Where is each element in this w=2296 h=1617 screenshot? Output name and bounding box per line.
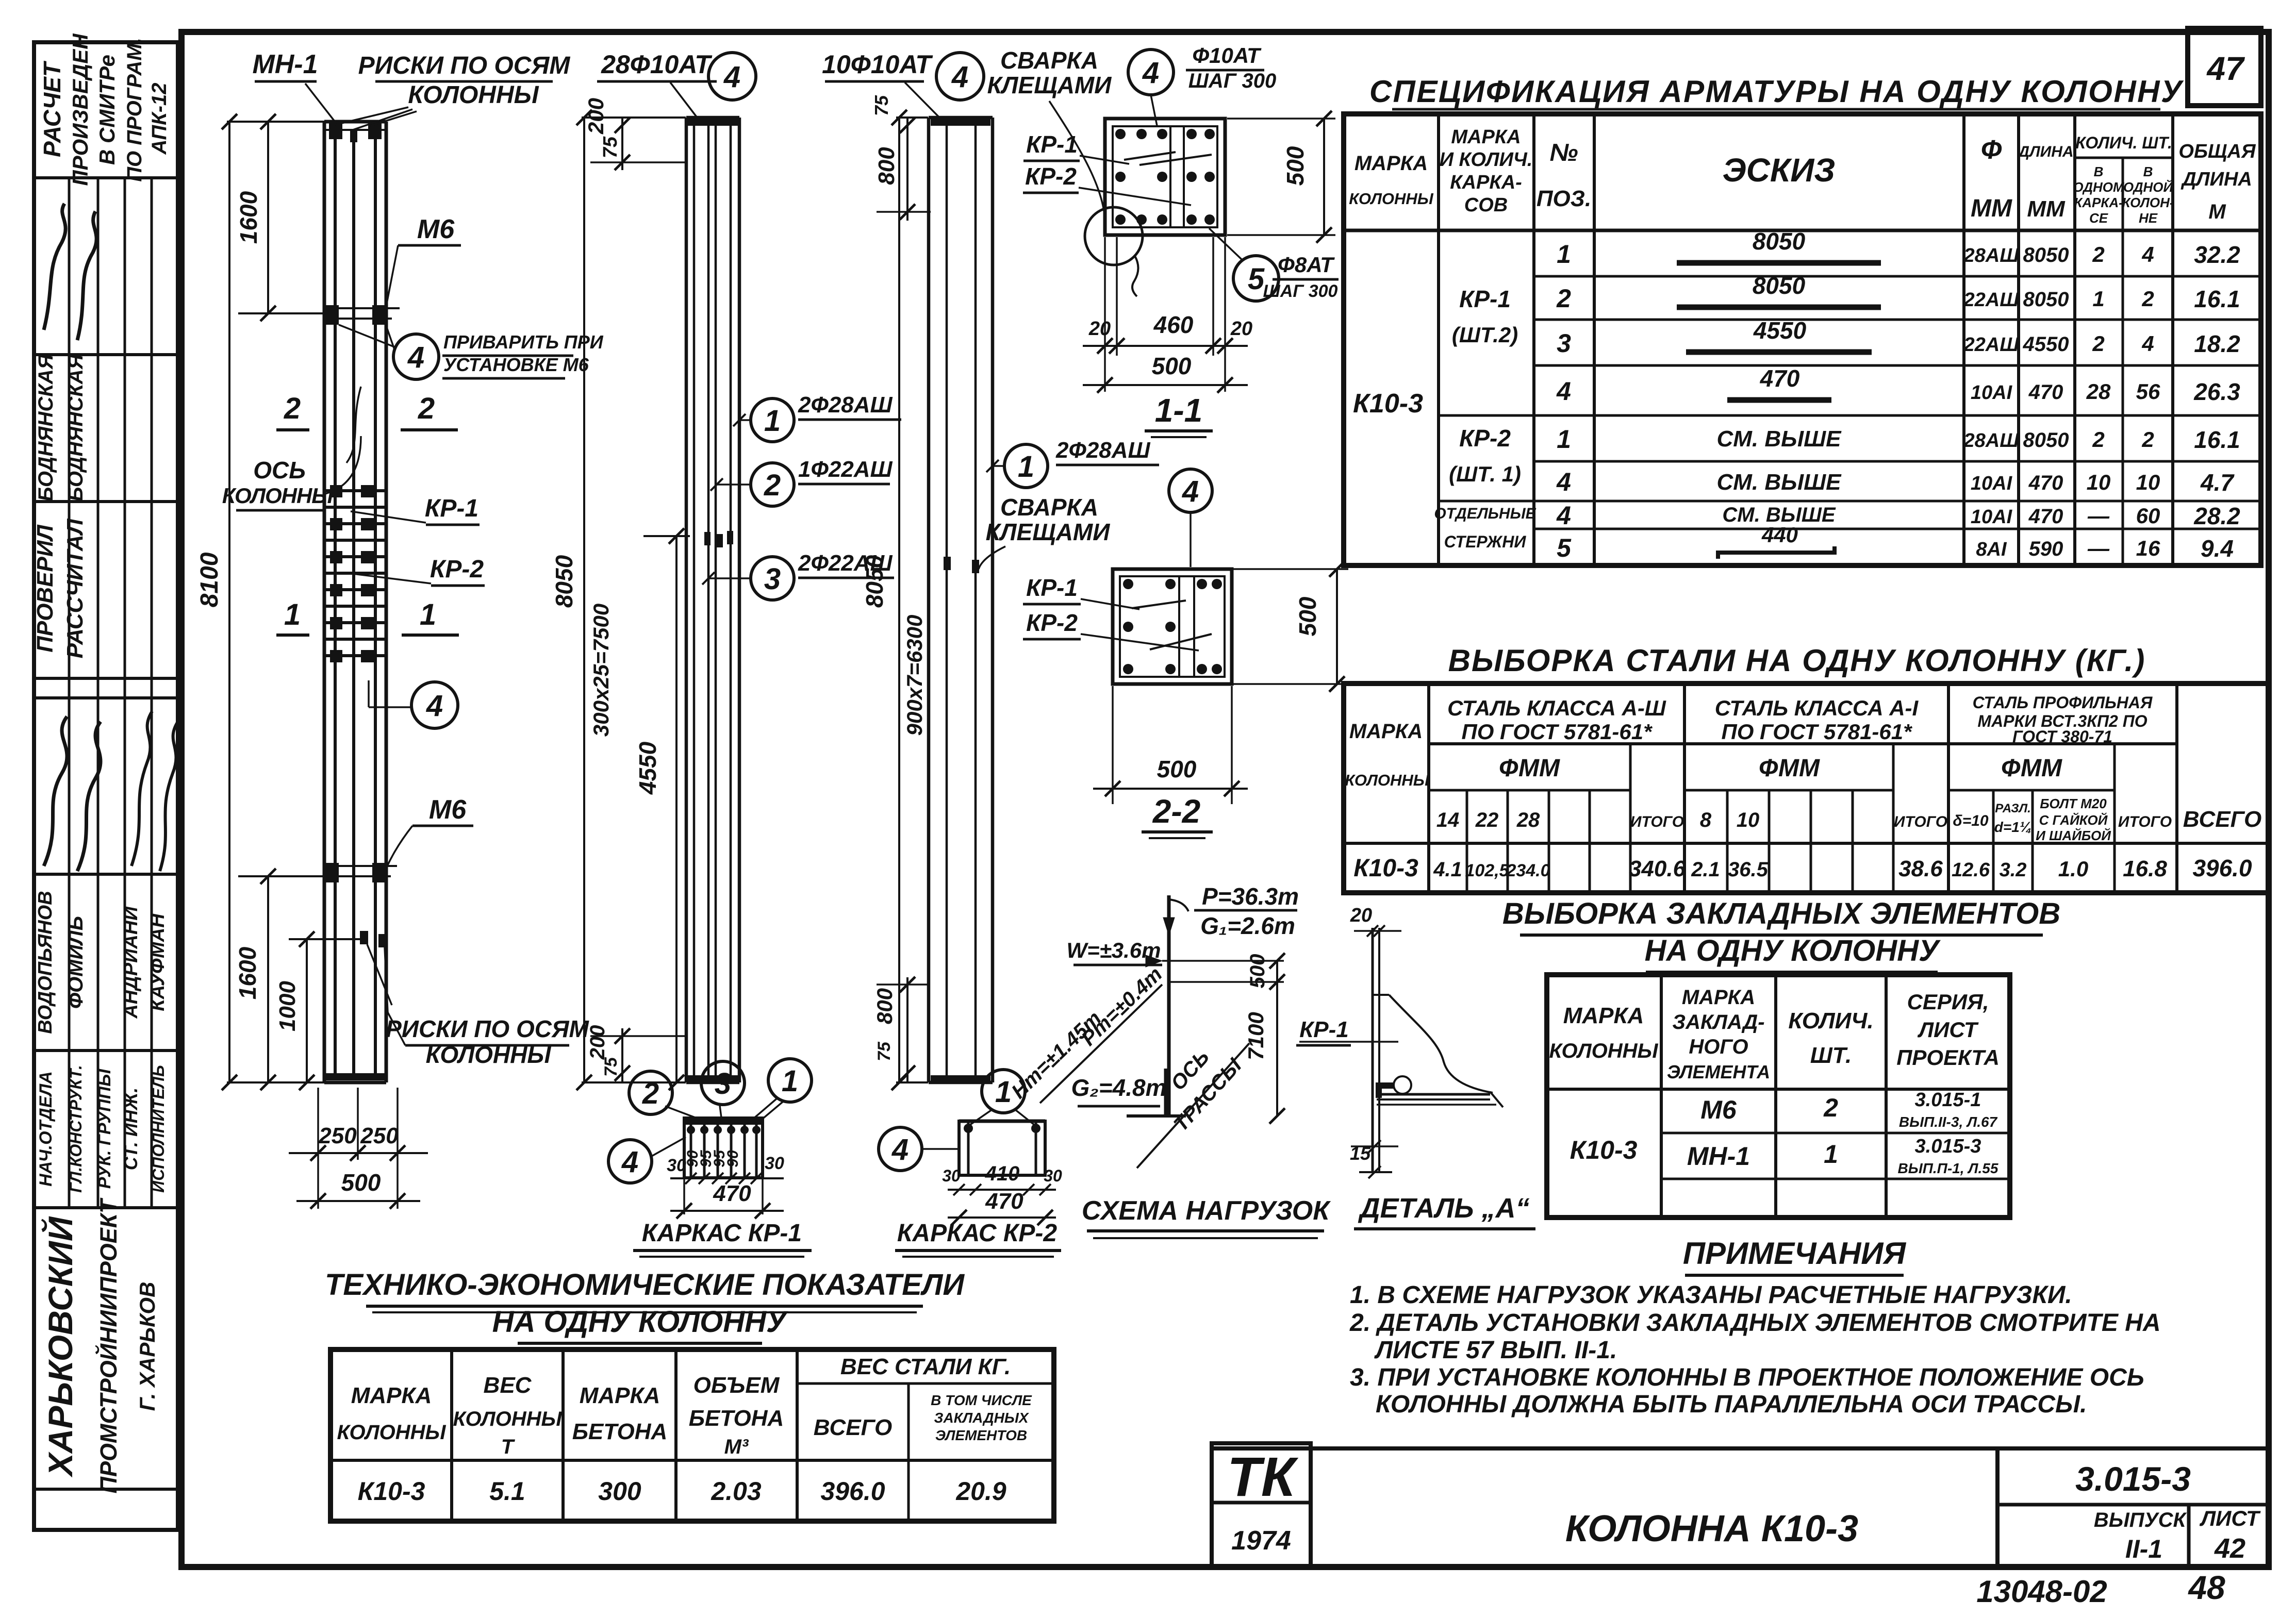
svg-text:440: 440 <box>1761 523 1798 547</box>
circle 4 karkas kr2 <box>879 1127 922 1171</box>
svg-text:МАРКА: МАРКА <box>1563 1003 1644 1028</box>
svg-text:РАССЧИТАЛ: РАССЧИТАЛ <box>62 519 88 659</box>
svg-text:КОЛОННЫ: КОЛОННЫ <box>337 1421 446 1444</box>
svg-text:22: 22 <box>1475 809 1499 831</box>
svg-text:НЕ: НЕ <box>2139 210 2158 226</box>
column 2 bottom dims 200/75 <box>621 1028 623 1082</box>
svg-text:102,5: 102,5 <box>1465 861 1509 880</box>
svg-text:30: 30 <box>765 1154 784 1173</box>
column 3 top plate <box>929 116 993 120</box>
os trassy diagonal <box>1137 1043 1249 1168</box>
detail A anchor angle <box>1376 1082 1394 1089</box>
svg-text:ШАГ 300: ШАГ 300 <box>1188 70 1276 92</box>
svg-text:ВСЕГО: ВСЕГО <box>814 1415 892 1440</box>
svg-text:ФММ: ФММ <box>1499 755 1560 782</box>
svg-text:1.0: 1.0 <box>2058 857 2088 881</box>
svg-text:250: 250 <box>318 1123 357 1148</box>
svg-text:18.2: 18.2 <box>2194 330 2240 357</box>
svg-text:—: — <box>2087 536 2110 560</box>
svg-text:РАЗЛ.: РАЗЛ. <box>1995 802 2031 815</box>
svg-text:КОЛОННЫ: КОЛОННЫ <box>1549 1040 1658 1062</box>
svg-text:КОЛОННА К10-3: КОЛОННА К10-3 <box>1565 1508 1858 1549</box>
svg-text:4: 4 <box>2141 242 2154 266</box>
karkas kr1 dim 470 <box>683 1178 685 1214</box>
svg-text:СТ. ИНЖ.: СТ. ИНЖ. <box>120 1088 141 1171</box>
svg-text:ММ: ММ <box>2027 196 2066 222</box>
svg-text:ПО ГОСТ 5781-61*: ПО ГОСТ 5781-61* <box>1722 720 1913 744</box>
svg-text:1600: 1600 <box>234 946 261 999</box>
svg-text:МАРКА: МАРКА <box>1355 152 1428 175</box>
svg-text:К10-3: К10-3 <box>1353 389 1423 419</box>
svg-text:20: 20 <box>1230 318 1252 340</box>
svg-text:8050: 8050 <box>1753 272 1806 299</box>
svg-text:ВЫБОРКА СТАЛИ НА ОДНУ КОЛО: ВЫБОРКА СТАЛИ НА ОДНУ КОЛОННУ (КГ.) <box>1448 643 2146 678</box>
svg-text:КР-1: КР-1 <box>1026 574 1078 601</box>
svg-text:10АI: 10АI <box>1971 506 2013 528</box>
svg-text:АПК-12: АПК-12 <box>148 82 171 155</box>
svg-text:10: 10 <box>1737 809 1760 831</box>
svg-text:590: 590 <box>2029 538 2063 560</box>
svg-text:Т: Т <box>501 1436 516 1458</box>
svg-text:К10-3: К10-3 <box>358 1477 425 1506</box>
svg-text:СХЕМА НАГРУЗОК: СХЕМА НАГРУЗОК <box>1082 1196 1331 1226</box>
svg-text:ВЕС СТАЛИ КГ.: ВЕС СТАЛИ КГ. <box>840 1354 1011 1379</box>
svg-text:ИТОГО: ИТОГО <box>1630 813 1684 830</box>
svg-text:1974: 1974 <box>1231 1526 1291 1556</box>
svg-text:БОДНЯНСКАЯ: БОДНЯНСКАЯ <box>35 354 57 502</box>
svg-text:СЕРИЯ,: СЕРИЯ, <box>1907 990 1989 1014</box>
svg-text:ВЫП.П-1, Л.55: ВЫП.П-1, Л.55 <box>1898 1160 1998 1176</box>
column 1 elevation: dimension 8100 <box>228 122 230 1082</box>
svg-text:396.0: 396.0 <box>2192 855 2252 881</box>
svg-text:ОДНОЙ: ОДНОЙ <box>2123 179 2174 195</box>
svg-text:16.1: 16.1 <box>2194 426 2240 453</box>
svg-text:3.015-3: 3.015-3 <box>1915 1136 1981 1157</box>
svg-text:410: 410 <box>985 1162 1020 1185</box>
svg-text:(ШТ.2): (ШТ.2) <box>1452 323 1518 347</box>
svg-text:КР-1: КР-1 <box>425 495 478 522</box>
svg-text:НАЧ.ОТДЕЛА: НАЧ.ОТДЕЛА <box>36 1071 56 1187</box>
svg-text:4: 4 <box>621 1145 638 1179</box>
column 1 bottom dims 250+250 <box>289 1152 428 1154</box>
svg-text:3: 3 <box>715 1067 731 1101</box>
detail A circle on section <box>1085 207 1143 265</box>
svg-text:234.0: 234.0 <box>1506 861 1550 880</box>
svg-text:1. В СХЕМЕ НАГРУЗОК УКАЗАНЫ: 1. В СХЕМЕ НАГРУЗОК УКАЗАНЫ РАСЧЕТНЫЕ НА… <box>1350 1281 2072 1309</box>
svg-text:3.015-3: 3.015-3 <box>2075 1460 2191 1498</box>
svg-text:4: 4 <box>1142 56 1159 90</box>
svg-text:1: 1 <box>995 1075 1012 1109</box>
svg-text:ТЕХНИКО-ЭКОНОМИЧЕСКИЕ ПОКАЗАТ: ТЕХНИКО-ЭКОНОМИЧЕСКИЕ ПОКАЗАТЕЛИ <box>325 1268 965 1302</box>
column 1: dimension 1600 top <box>267 122 269 313</box>
column 3 bottom dims 800/75 <box>906 977 909 1082</box>
svg-text:КОЛОННЫ ДОЛЖНА БЫТЬ ПАРАЛЛЕ: КОЛОННЫ ДОЛЖНА БЫТЬ ПАРАЛЛЕЛЬНА ОСИ ТРАС… <box>1376 1391 2087 1418</box>
svg-text:75: 75 <box>871 95 892 116</box>
svg-text:2: 2 <box>1823 1093 1838 1122</box>
svg-text:ДЕТАЛЬ „А“: ДЕТАЛЬ „А“ <box>1358 1193 1530 1224</box>
svg-text:СОВ: СОВ <box>1464 194 1508 216</box>
svg-text:470: 470 <box>1760 365 1800 392</box>
svg-text:ШТ.: ШТ. <box>1810 1043 1852 1068</box>
svg-text:ФММ: ФММ <box>1759 755 1820 782</box>
column 1 dimension 1600 bottom <box>267 876 269 1082</box>
svg-text:КОЛИЧ.: КОЛИЧ. <box>1788 1008 1873 1033</box>
svg-text:47: 47 <box>2206 50 2245 87</box>
section 1-1 bottom dims 20/460/20 <box>1104 237 1106 392</box>
svg-text:2Ф28АШ: 2Ф28АШ <box>1055 438 1151 463</box>
svg-text:3. ПРИ УСТАНОВКЕ КОЛОННЫ В: 3. ПРИ УСТАНОВКЕ КОЛОННЫ В ПРОЕКТНОЕ ПОЛ… <box>1350 1364 2144 1391</box>
svg-text:УСТАНОВКЕ М6: УСТАНОВКЕ М6 <box>443 354 589 375</box>
svg-text:1000: 1000 <box>275 981 300 1031</box>
svg-text:500: 500 <box>341 1169 381 1196</box>
svg-text:КОЛОН-: КОЛОН- <box>2122 195 2174 210</box>
column 2 main dim 8050 <box>583 118 585 1082</box>
svg-text:ВЫПУСК: ВЫПУСК <box>2094 1509 2187 1531</box>
svg-text:СМ. ВЫШЕ: СМ. ВЫШЕ <box>1716 470 1842 495</box>
svg-text:ОТДЕЛЬНЫЕ: ОТДЕЛЬНЫЕ <box>1434 505 1536 522</box>
svg-text:22АШ: 22АШ <box>1963 334 2020 356</box>
svg-text:КР-2: КР-2 <box>1025 163 1077 190</box>
svg-text:КЛЕЩАМИ: КЛЕЩАМИ <box>986 519 1111 545</box>
svg-text:4: 4 <box>1556 501 1571 530</box>
svg-text:ПРОИЗВЕДЕН: ПРОИЗВЕДЕН <box>68 33 92 186</box>
svg-text:КОЛОННЫ: КОЛОННЫ <box>408 81 539 109</box>
svg-text:4550: 4550 <box>634 741 661 795</box>
svg-text:1600: 1600 <box>235 191 262 244</box>
svg-text:СПЕЦИФИКАЦИЯ АРМАТУРЫ НА ОД: СПЕЦИФИКАЦИЯ АРМАТУРЫ НА ОДНУ КОЛОННУ <box>1369 74 2184 109</box>
spec table grid <box>1344 114 2261 565</box>
column 3 main dim 8050 <box>898 118 900 1082</box>
circle 5 + F8AT <box>1233 256 1279 301</box>
column 1 stirrup band <box>325 489 386 492</box>
title block <box>1212 1446 2269 1451</box>
svg-text:(ШТ. 1): (ШТ. 1) <box>1449 462 1521 486</box>
svg-text:ВСЕГО: ВСЕГО <box>2183 807 2261 832</box>
svg-text:2: 2 <box>2092 427 2104 452</box>
svg-text:ПО ГОСТ 5781-61*: ПО ГОСТ 5781-61* <box>1462 720 1653 744</box>
svg-text:ЗАКЛАДНЫХ: ЗАКЛАДНЫХ <box>934 1410 1029 1426</box>
callout circle 1 column 3 <box>1004 444 1048 488</box>
svg-text:РИСКИ ПО ОСЯМ: РИСКИ ПО ОСЯМ <box>358 52 571 79</box>
karkas Kr-1 sketch <box>684 1118 763 1178</box>
svg-text:800: 800 <box>872 988 897 1024</box>
svg-text:28.2: 28.2 <box>2193 503 2240 529</box>
svg-text:ОСЬ: ОСЬ <box>253 457 306 484</box>
svg-text:АНДРИАНИ: АНДРИАНИ <box>120 906 142 1019</box>
svg-text:75: 75 <box>874 1041 894 1061</box>
svg-text:ПО ПРОГРАМ.: ПО ПРОГРАМ. <box>123 38 146 182</box>
svg-text:ВОДОПЬЯНОВ: ВОДОПЬЯНОВ <box>35 891 56 1034</box>
svg-text:КОЛОННЫ: КОЛОННЫ <box>222 484 334 508</box>
svg-text:М6: М6 <box>1700 1095 1737 1124</box>
svg-text:470: 470 <box>2028 472 2063 494</box>
svg-text:КОЛОННЫ: КОЛОННЫ <box>1349 190 1434 208</box>
svg-text:4550: 4550 <box>2023 333 2069 356</box>
column 2 body <box>685 118 688 1082</box>
svg-text:МАРКА: МАРКА <box>1682 986 1755 1009</box>
svg-text:4: 4 <box>2141 331 2154 356</box>
svg-text:М³: М³ <box>724 1436 749 1458</box>
svg-text:10АI: 10АI <box>1971 473 2013 494</box>
svg-text:22АШ: 22АШ <box>1963 289 2020 311</box>
svg-text:470: 470 <box>985 1189 1023 1214</box>
svg-text:КАРКАС КР-1: КАРКАС КР-1 <box>642 1220 802 1247</box>
svg-text:16: 16 <box>2136 536 2160 560</box>
svg-text:СТАЛЬ КЛАССА А-Ш: СТАЛЬ КЛАССА А-Ш <box>1447 696 1666 720</box>
svg-text:СВАРКА: СВАРКА <box>1000 494 1098 521</box>
svg-text:G₂=4.8т: G₂=4.8т <box>1071 1074 1166 1101</box>
svg-text:МН-1: МН-1 <box>252 49 318 79</box>
svg-text:СВАРКА: СВАРКА <box>1000 47 1098 74</box>
circle 4 above section 2-2 <box>1169 469 1212 512</box>
svg-text:2: 2 <box>642 1077 659 1110</box>
svg-text:d=1¼: d=1¼ <box>1994 819 2031 835</box>
svg-text:ЭЛЕМЕНТА: ЭЛЕМЕНТА <box>1667 1061 1770 1082</box>
svg-text:4: 4 <box>407 341 424 374</box>
circle 4 privarit top <box>393 334 439 379</box>
svg-text:G₁=2.6т: G₁=2.6т <box>1200 912 1295 939</box>
svg-text:1: 1 <box>764 404 781 438</box>
load scheme right dims 500/7100 <box>1276 961 1278 1116</box>
circle 3 karkas <box>701 1061 745 1105</box>
svg-text:1: 1 <box>420 598 436 631</box>
svg-text:3.015-1: 3.015-1 <box>1915 1089 1981 1111</box>
svg-text:800: 800 <box>874 147 899 185</box>
svg-text:3: 3 <box>1557 329 1571 358</box>
svg-text:ПРОМСТРОЙНИИПРОЕКТ: ПРОМСТРОЙНИИПРОЕКТ <box>95 1197 122 1493</box>
svg-text:1: 1 <box>782 1064 798 1098</box>
svg-text:РАСЧЕТ: РАСЧЕТ <box>39 60 65 157</box>
svg-text:28АШ: 28АШ <box>1963 245 2020 266</box>
svg-text:ЛИСТЕ 57 ВЫП. II-1.: ЛИСТЕ 57 ВЫП. II-1. <box>1374 1337 1617 1364</box>
svg-text:БОДНЯНСКАЯ: БОДНЯНСКАЯ <box>64 354 87 502</box>
svg-text:КАРКАС КР-2: КАРКАС КР-2 <box>897 1220 1057 1247</box>
svg-text:4550: 4550 <box>1753 317 1807 344</box>
svg-text:3.2: 3.2 <box>2000 859 2027 881</box>
svg-text:БЕТОНА: БЕТОНА <box>572 1419 668 1444</box>
svg-text:КЛЕЩАМИ: КЛЕЩАМИ <box>987 72 1112 98</box>
svg-text:ОДНОМ: ОДНОМ <box>2073 179 2125 195</box>
detail A base tick <box>1359 1171 1392 1173</box>
svg-text:4.1: 4.1 <box>1433 858 1462 881</box>
svg-text:КОЛОННЫ: КОЛОННЫ <box>1345 771 1430 789</box>
svg-text:ФОМИЛЬ: ФОМИЛЬ <box>64 916 87 1009</box>
svg-text:МН-1: МН-1 <box>1687 1142 1750 1171</box>
svg-text:ЛИСТ: ЛИСТ <box>1917 1018 1979 1042</box>
karkas kr2 dims 30/410/30 <box>948 1189 1056 1191</box>
circle 4 mid <box>411 682 458 728</box>
svg-text:Ф8АТ: Ф8АТ <box>1278 253 1335 277</box>
column 2 mid marks <box>704 532 711 545</box>
svg-text:КОЛОННЫ: КОЛОННЫ <box>426 1041 552 1068</box>
stamp strip: signatures top <box>44 204 65 330</box>
svg-text:5: 5 <box>1248 262 1265 296</box>
circle 1 karkas kr2 <box>982 1070 1025 1113</box>
svg-text:28: 28 <box>1516 809 1540 831</box>
svg-text:ДЛИНА: ДЛИНА <box>2017 143 2073 160</box>
svg-text:2: 2 <box>2092 242 2104 266</box>
circle 2 karkas <box>629 1071 672 1114</box>
svg-text:8: 8 <box>1700 809 1712 831</box>
svg-text:СТАЛЬ КЛАССА А-I: СТАЛЬ КЛАССА А-I <box>1715 696 1919 720</box>
svg-text:4: 4 <box>891 1133 909 1166</box>
svg-text:ОБЪЕМ: ОБЪЕМ <box>693 1373 780 1398</box>
stamp strip: signatures bottom <box>44 716 67 866</box>
svg-text:500: 500 <box>1152 353 1192 379</box>
svg-text:ЛИСТ: ЛИСТ <box>2199 1506 2261 1530</box>
svg-text:300x25=7500: 300x25=7500 <box>589 604 613 737</box>
svg-text:КР-1: КР-1 <box>1026 131 1078 158</box>
svg-text:ПРОВЕРИЛ: ПРОВЕРИЛ <box>32 524 58 652</box>
svg-text:ПРОЕКТА: ПРОЕКТА <box>1896 1045 2000 1070</box>
TK stamp box <box>1212 1443 1311 1567</box>
svg-text:1Ф22АШ: 1Ф22АШ <box>798 457 893 482</box>
svg-text:90: 90 <box>724 1150 741 1168</box>
column 1 dimension 1000 <box>306 939 308 1082</box>
svg-text:10Ф10АТ: 10Ф10АТ <box>822 50 933 79</box>
section 1-1 right dim 500 <box>1227 118 1335 120</box>
svg-text:5: 5 <box>1557 534 1572 562</box>
svg-text:Г. ХАРЬКОВ: Г. ХАРЬКОВ <box>135 1282 159 1411</box>
svg-text:36.5: 36.5 <box>1728 858 1769 881</box>
svg-text:2.1: 2.1 <box>1691 858 1720 881</box>
svg-text:КАУФМАН: КАУФМАН <box>147 913 169 1011</box>
svg-text:2: 2 <box>1556 284 1571 313</box>
svg-text:2: 2 <box>2141 287 2154 311</box>
steel table grid <box>1344 684 2269 893</box>
svg-text:60: 60 <box>2136 504 2160 528</box>
section 1-1 square <box>1105 119 1225 235</box>
svg-text:500: 500 <box>1246 954 1269 989</box>
svg-text:2. ДЕТАЛЬ УСТАНОВКИ ЗАКЛАДНЫ: 2. ДЕТАЛЬ УСТАНОВКИ ЗАКЛАДНЫХ ЭЛЕМЕНТОВ … <box>1349 1309 2161 1337</box>
svg-text:30: 30 <box>667 1156 686 1175</box>
svg-text:8050: 8050 <box>551 555 577 608</box>
svg-text:30: 30 <box>942 1166 961 1185</box>
svg-text:2.03: 2.03 <box>711 1477 762 1506</box>
section 1-1 bottom dim 500 <box>1083 384 1248 386</box>
svg-text:1: 1 <box>1018 450 1034 484</box>
detail A column edge <box>1372 928 1374 1172</box>
svg-text:200: 200 <box>586 1025 609 1060</box>
axis risk marks bottom <box>360 931 368 944</box>
svg-text:СЕ: СЕ <box>2089 210 2108 226</box>
svg-text:4: 4 <box>1556 377 1571 406</box>
detail A bolt <box>1394 1076 1411 1094</box>
svg-text:ГОСТ 380-71: ГОСТ 380-71 <box>2012 727 2112 746</box>
svg-text:КР-1: КР-1 <box>1459 286 1511 312</box>
svg-text:ТК: ТК <box>1227 1445 1299 1508</box>
svg-text:42: 42 <box>2214 1533 2245 1564</box>
svg-text:Ф10АТ: Ф10АТ <box>1192 43 1262 68</box>
svg-text:Ф: Ф <box>1981 135 2002 165</box>
svg-text:БЕТОНА: БЕТОНА <box>689 1406 784 1431</box>
load scheme base line <box>1127 1114 1186 1118</box>
svg-text:8050: 8050 <box>2023 244 2069 266</box>
section 2-2 square <box>1113 569 1232 684</box>
svg-text:4: 4 <box>426 689 443 723</box>
column 3 bottom plate <box>929 1081 993 1085</box>
svg-text:1: 1 <box>1557 240 1571 269</box>
section 2-2 right dim 500 <box>1233 568 1348 570</box>
column 2 top plate <box>686 116 739 120</box>
svg-text:ЗАКЛАД-: ЗАКЛАД- <box>1672 1011 1764 1033</box>
svg-text:ВЫБОРКА ЗАКЛАДНЫХ ЭЛЕМЕНТОВ: ВЫБОРКА ЗАКЛАДНЫХ ЭЛЕМЕНТОВ <box>1502 897 2060 930</box>
svg-text:СТЕРЖНИ: СТЕРЖНИ <box>1444 532 1527 551</box>
circle 4 above section 1-1 <box>1128 49 1174 95</box>
column 3 top dims 75/800 <box>906 118 909 221</box>
section 2-2 diagonals <box>1132 601 1186 608</box>
svg-text:38.6: 38.6 <box>1898 856 1943 881</box>
load scheme console level <box>1169 981 1284 983</box>
callout circle 3 column 2 <box>751 557 794 600</box>
svg-text:470: 470 <box>2028 505 2063 528</box>
svg-text:ОБЩАЯ: ОБЩАЯ <box>2178 141 2256 162</box>
sheet number box 47 <box>2188 28 2261 106</box>
svg-text:№: № <box>1549 139 1578 166</box>
svg-text:56: 56 <box>2136 379 2160 404</box>
svg-text:МАРКА: МАРКА <box>580 1383 660 1408</box>
svg-text:ИСПОЛНИТЕЛЬ: ИСПОЛНИТЕЛЬ <box>149 1065 168 1193</box>
svg-text:ИТОГО: ИТОГО <box>2118 813 2172 830</box>
svg-text:P=36.3т: P=36.3т <box>1202 883 1299 910</box>
svg-text:28Ф10АТ: 28Ф10АТ <box>601 50 713 79</box>
svg-text:ЭЛЕМЕНТОВ: ЭЛЕМЕНТОВ <box>935 1427 1027 1443</box>
svg-text:13048-02: 13048-02 <box>1976 1574 2107 1609</box>
svg-text:КАРКА-: КАРКА- <box>2074 195 2123 210</box>
M6 plates mid <box>324 307 400 309</box>
svg-text:ВЫП.II-3, Л.67: ВЫП.II-3, Л.67 <box>1899 1114 1998 1130</box>
left stamp strip table <box>34 42 178 1530</box>
svg-text:2: 2 <box>418 392 435 425</box>
svg-text:28: 28 <box>2086 379 2111 404</box>
svg-text:КР-2: КР-2 <box>1459 425 1511 452</box>
svg-text:396.0: 396.0 <box>820 1477 885 1506</box>
svg-text:ГЛ.КОНСТРУКТ.: ГЛ.КОНСТРУКТ. <box>67 1065 85 1193</box>
svg-text:3: 3 <box>764 562 781 596</box>
svg-text:РУК. ГРУППЫ: РУК. ГРУППЫ <box>95 1069 114 1189</box>
svg-text:ПРИМЕЧАНИЯ: ПРИМЕЧАНИЯ <box>1683 1236 1907 1271</box>
svg-text:КР-2: КР-2 <box>1026 609 1078 636</box>
svg-text:В: В <box>2143 164 2153 179</box>
svg-text:2: 2 <box>284 392 301 425</box>
svg-text:ПОЗ.: ПОЗ. <box>1537 186 1591 211</box>
svg-text:К10-3: К10-3 <box>1570 1136 1638 1164</box>
svg-text:16.1: 16.1 <box>2194 286 2240 312</box>
svg-text:В ТОМ ЧИСЛЕ: В ТОМ ЧИСЛЕ <box>931 1392 1032 1408</box>
svg-text:8050: 8050 <box>1753 228 1806 255</box>
svg-text:КР-1: КР-1 <box>1299 1017 1349 1042</box>
svg-text:КОЛОННЫ: КОЛОННЫ <box>453 1408 562 1430</box>
svg-text:НОГО: НОГО <box>1689 1036 1748 1058</box>
svg-text:НА ОДНУ КОЛОННУ: НА ОДНУ КОЛОННУ <box>1645 934 1941 968</box>
svg-text:КР-2: КР-2 <box>430 556 484 583</box>
svg-text:8050: 8050 <box>2023 288 2069 311</box>
svg-text:МАРКА: МАРКА <box>1451 126 1521 148</box>
section 2-2 bar dots <box>1123 579 1133 589</box>
column 3 body <box>927 118 931 1082</box>
svg-text:1-1: 1-1 <box>1155 392 1203 429</box>
section 2-2 bottom dim 500 <box>1112 686 1114 804</box>
svg-text:К10-3: К10-3 <box>1353 855 1418 882</box>
svg-text:БОЛТ М20: БОЛТ М20 <box>2040 796 2107 811</box>
column 1 bottom dim 500 <box>296 1200 420 1202</box>
svg-text:2: 2 <box>2092 331 2104 356</box>
svg-text:ШАГ 300: ШАГ 300 <box>1263 281 1338 301</box>
svg-text:250: 250 <box>360 1123 399 1148</box>
svg-text:470: 470 <box>2028 381 2063 404</box>
svg-text:И КОЛИЧ.: И КОЛИЧ. <box>1440 149 1533 171</box>
svg-text:ИТОГО: ИТОГО <box>1894 813 1947 830</box>
